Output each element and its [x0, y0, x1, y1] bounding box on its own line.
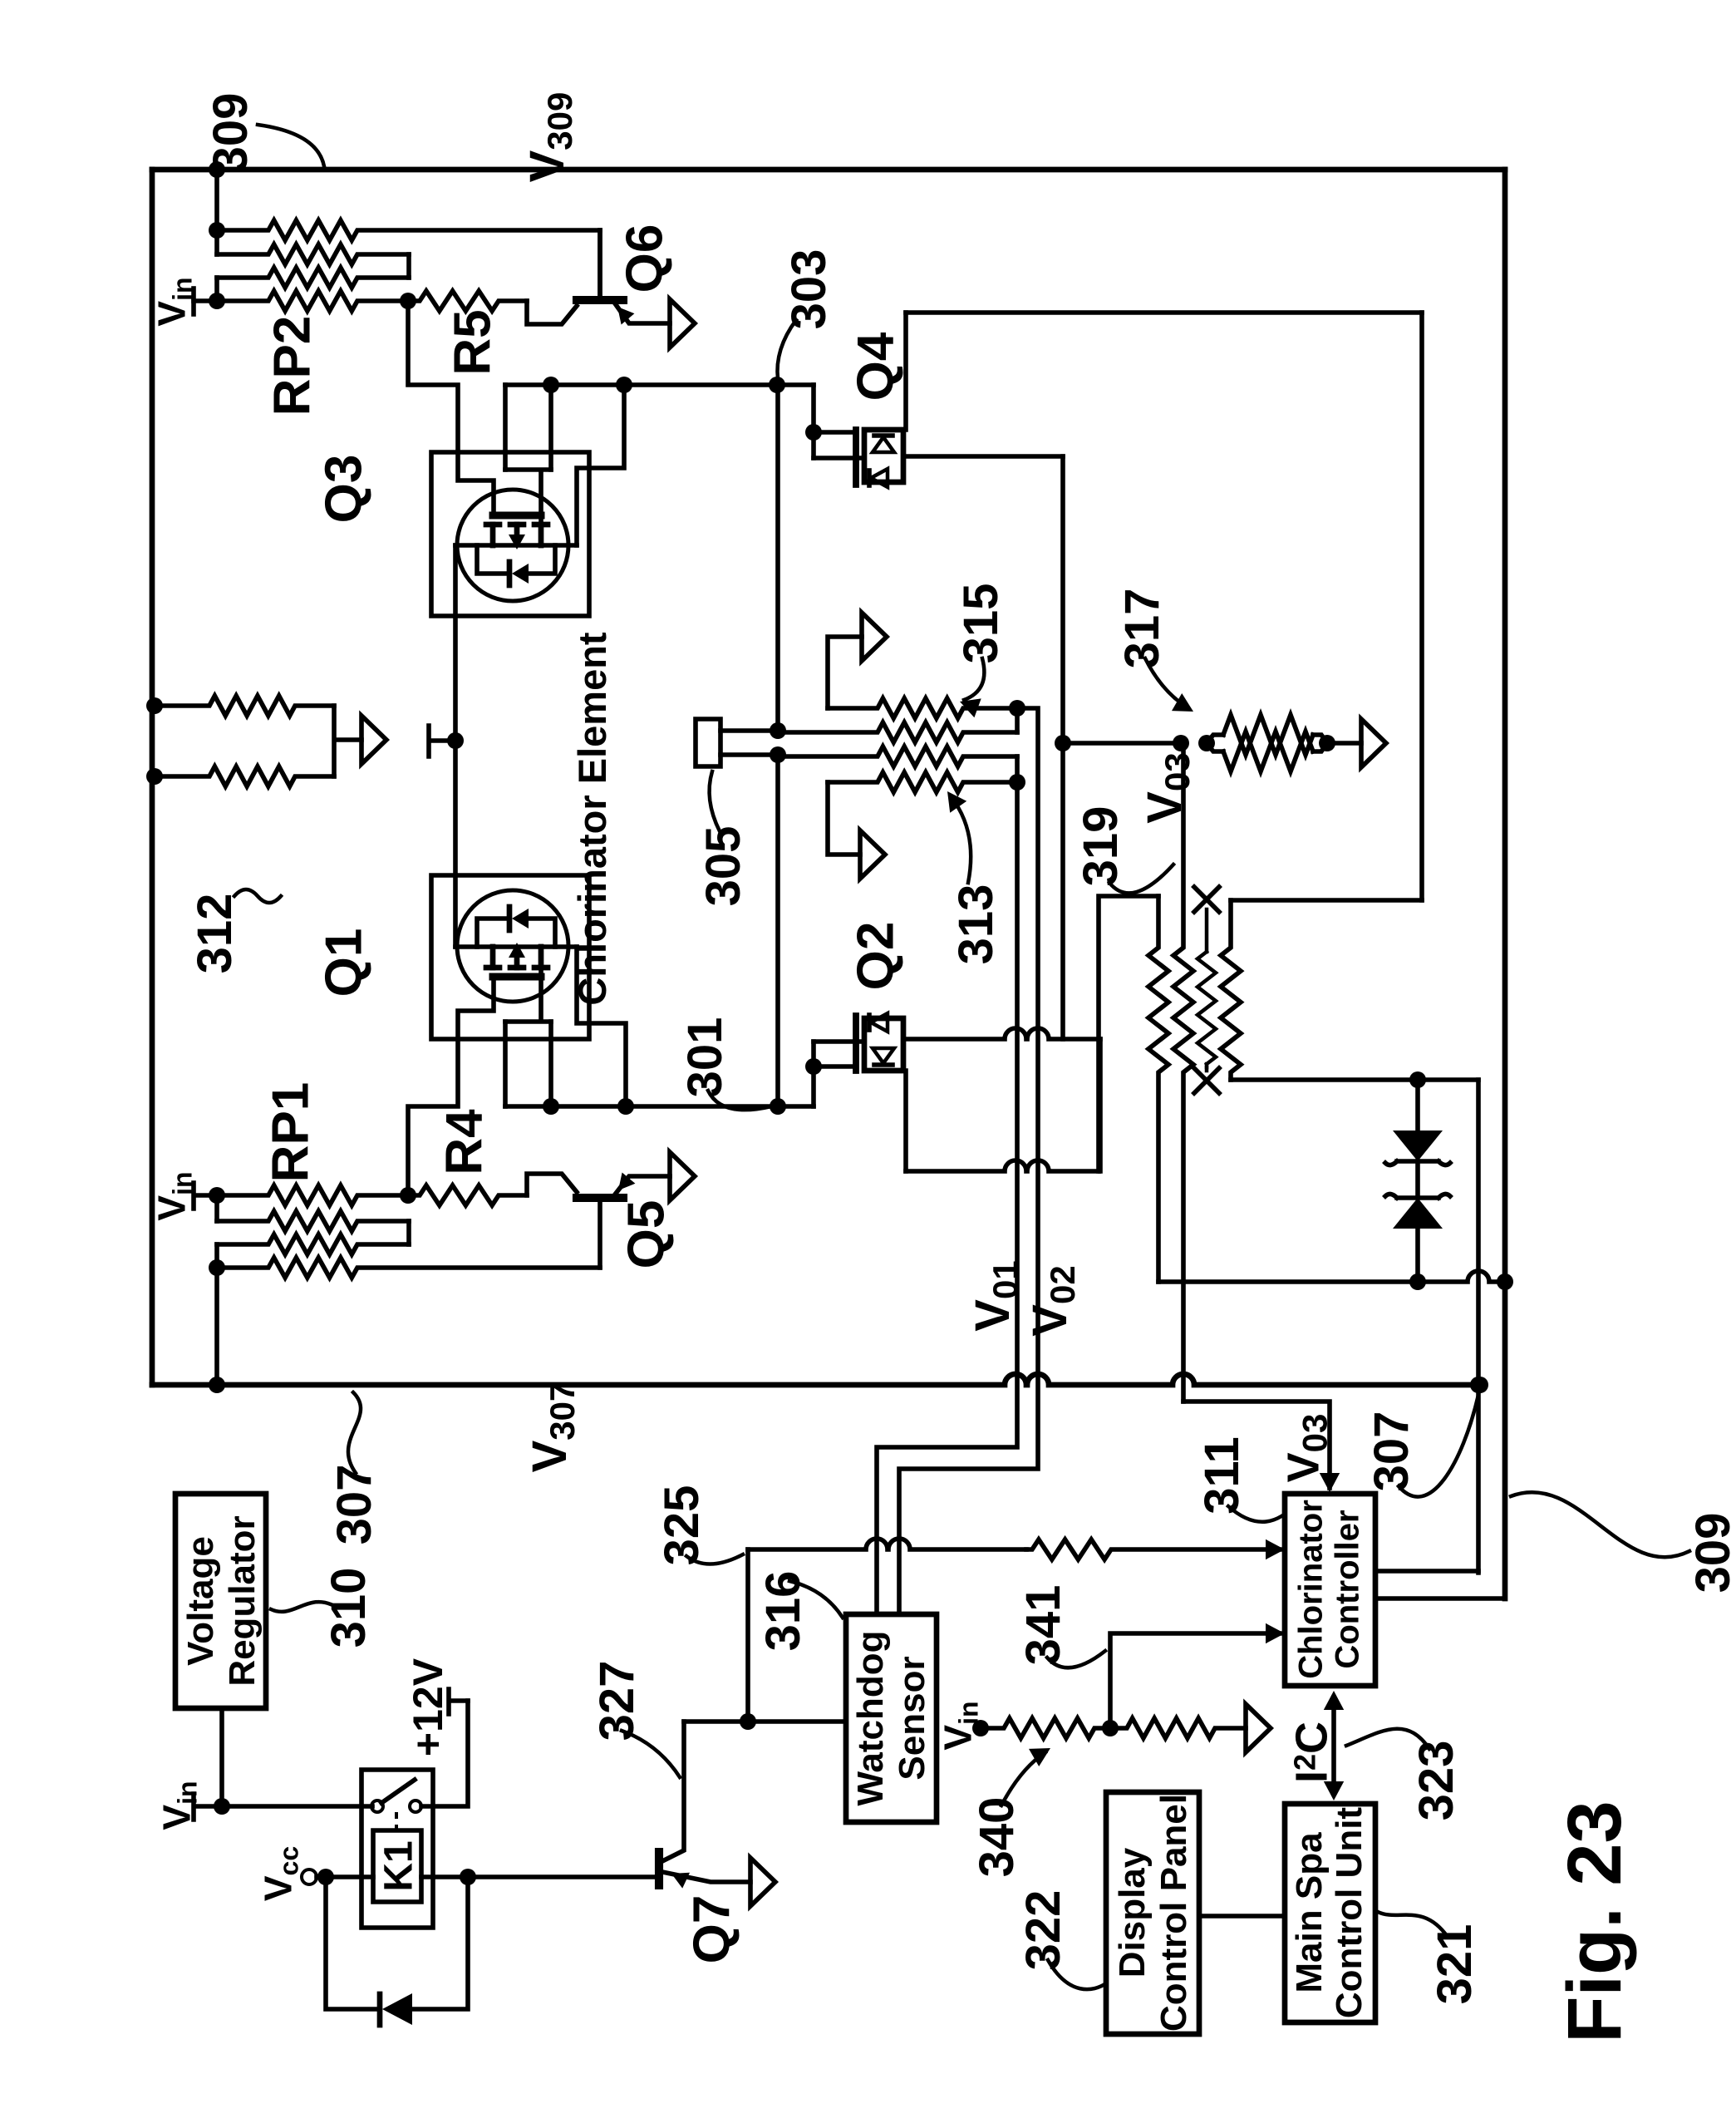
wire Q7 collector	[661, 1722, 684, 1862]
resistor RP2 row4 (Vin row)	[217, 291, 408, 311]
wire RP1 row4 -> Q5 collector	[598, 1198, 602, 1268]
svg-text:307: 307	[1365, 1411, 1419, 1492]
wire Q3 diode riser L	[477, 545, 508, 574]
resistor RP2 row3	[217, 268, 409, 288]
wire 315 gnd L	[828, 637, 862, 708]
ground 312	[361, 716, 386, 764]
svg-text:327: 327	[590, 1661, 644, 1741]
resistor RP1 row3	[217, 1234, 409, 1254]
leader 321	[1378, 1912, 1448, 1937]
diode Q2 upper bar	[867, 1015, 872, 1030]
resistor row3	[778, 746, 1017, 766]
svg-text:312: 312	[188, 894, 242, 974]
svg-text:Chlorinator: Chlorinator	[1292, 1500, 1329, 1679]
wire 1542 line	[1158, 1271, 1505, 1282]
wire Vcc to node	[317, 1874, 326, 1879]
resistor RP1 row1 (Vin row)	[217, 1185, 408, 1205]
wire Q1 lead tie	[505, 968, 551, 1022]
node 312b rail	[146, 768, 163, 785]
svg-text:Controller: Controller	[1329, 1510, 1365, 1668]
diode zener D1	[1393, 1130, 1443, 1161]
svg-text:325: 325	[655, 1485, 709, 1566]
block Voltage Regulator	[175, 1494, 266, 1708]
svg-text:313: 313	[949, 884, 1003, 965]
wire diode column	[1415, 1080, 1420, 1282]
wire Q3 channel rail	[455, 543, 577, 548]
wire Q2 source lead	[814, 1039, 864, 1044]
node row1 right	[1009, 700, 1025, 717]
svg-text:Q1: Q1	[315, 929, 372, 997]
diode Q2 lower bar	[874, 1062, 893, 1067]
svg-text:340: 340	[970, 1797, 1024, 1878]
leader 323	[1346, 1729, 1429, 1749]
resistor 312b	[152, 766, 334, 786]
wire element to 301	[775, 755, 780, 1106]
leader 315	[964, 658, 984, 700]
transistor Q6 base bar	[577, 296, 623, 304]
wire Q1 diode riser L	[477, 919, 508, 947]
diode Q4 lower triangle	[871, 469, 888, 487]
wire RP1 left join rows3-4	[214, 1244, 219, 1268]
diode Q2 lower triangle	[873, 1048, 894, 1063]
svg-text:Watchdog: Watchdog	[850, 1631, 891, 1806]
wire Q3 drain tie	[505, 470, 551, 523]
leader 303	[777, 320, 796, 379]
block Watchdog Sensor	[846, 1614, 937, 1822]
resistor 340a	[981, 1718, 1110, 1738]
wire rows1-2 right join	[1015, 708, 1020, 732]
wire element stub B	[720, 752, 778, 757]
node element B	[770, 746, 786, 763]
svg-text:305: 305	[696, 826, 750, 907]
node Vin row left	[209, 293, 225, 309]
node 1542 diode	[1409, 1273, 1426, 1290]
transistor Q2 gate bar	[853, 1016, 859, 1071]
wire RP2 left join rows3-4	[214, 278, 219, 301]
transistor Q7 base bar	[655, 1852, 663, 1885]
svg-text:Fig. 23: Fig. 23	[1552, 1800, 1637, 2042]
ground Q5 emitter	[670, 1152, 695, 1200]
resistor 319 col2 (V03)	[1173, 743, 1193, 1401]
wire rows3-4 right join	[1015, 756, 1020, 782]
svg-text:Q7: Q7	[683, 1895, 740, 1964]
node diode top	[1409, 1071, 1426, 1088]
wire RP2 row1->Q6 collector corner	[598, 230, 602, 300]
wire 301 corner to Q2	[811, 1042, 816, 1106]
diode Q2 upper triangle	[871, 1013, 888, 1032]
transistor Q1 outer box	[431, 875, 589, 1039]
diode Q1 body triangle	[512, 909, 529, 929]
leader 317	[1145, 658, 1188, 708]
ground 317	[1361, 719, 1386, 767]
ground Q7	[750, 1858, 775, 1906]
node 301 b	[617, 1098, 634, 1115]
diode Q4 lower bar	[867, 470, 872, 485]
leader 319	[1109, 864, 1173, 893]
wire 1322 link	[1099, 896, 1158, 1171]
resistor 319 col1	[1148, 896, 1168, 1282]
resistor 317 lower	[1207, 743, 1223, 751]
wire Q2 source down	[903, 1071, 908, 1171]
diode Q4 upper bar	[874, 433, 893, 438]
transistor Q1 circle	[457, 890, 568, 1002]
wire 1083 left	[1231, 898, 1422, 903]
mark X top	[1194, 887, 1219, 912]
svg-text:307: 307	[327, 1465, 381, 1545]
transistor Q2 body box	[864, 1018, 903, 1071]
transistor Q6 emitter	[615, 303, 670, 323]
wire coil right	[421, 1874, 468, 1879]
diode Q4 upper triangle	[873, 437, 894, 452]
svg-text:323: 323	[1409, 1741, 1463, 1821]
wire 312 join	[334, 706, 361, 776]
wire V01	[877, 782, 1017, 1614]
terminal Vin bottom	[972, 1720, 989, 1736]
wire RP2/R5 node to Q3 gate	[408, 301, 494, 515]
wire RP1 row4 left down to 307	[214, 1268, 219, 1385]
wire Q2 gate lead	[814, 1064, 853, 1069]
wire +12V to contact	[421, 1701, 468, 1806]
leader 301	[708, 1091, 771, 1110]
wire X line	[1205, 909, 1209, 952]
leader 325	[686, 1554, 743, 1564]
diode zener D2	[1393, 1198, 1443, 1229]
resistor 313 (row4)	[828, 772, 1017, 792]
wire right rail 309	[1502, 170, 1508, 1598]
wire Q3 right lead	[577, 385, 624, 545]
svg-text:310: 310	[322, 1568, 376, 1648]
wire Vin to relay	[222, 1804, 372, 1809]
node RP2 row1 left	[209, 222, 225, 239]
wire VR to Vin	[219, 1708, 224, 1806]
node 317 right	[1319, 735, 1335, 751]
wire X line b	[1205, 1066, 1209, 1070]
wire CC out2	[1375, 1596, 1505, 1601]
wire 301 bus	[505, 1104, 814, 1109]
ground 340	[1246, 1704, 1271, 1752]
svg-text:Control Panel: Control Panel	[1153, 1794, 1194, 2032]
wire I2C bus	[1331, 1697, 1336, 1794]
node 301 a	[543, 1098, 559, 1115]
wire 303 bus	[505, 382, 814, 387]
node 303 bus b	[616, 377, 632, 393]
terminal T cap	[429, 726, 455, 756]
wire Q7 collector top	[684, 1719, 846, 1724]
resistor 319 col3	[1197, 952, 1216, 1064]
resistor RP2 row2	[217, 244, 409, 264]
block Chlorinator Controller	[1285, 1494, 1375, 1686]
wire display-mainspa	[1199, 1914, 1285, 1919]
transistor Q7 emitter	[662, 1872, 750, 1882]
wire y894 to 317	[1063, 741, 1181, 746]
svg-text:311: 311	[1195, 1436, 1249, 1515]
wire 1711 down	[1419, 313, 1424, 900]
node y894 right	[1173, 735, 1189, 751]
svg-text:309: 309	[1686, 1513, 1736, 1594]
wire Q3 diode riser R	[529, 545, 555, 574]
svg-text:I2C: I2C	[1286, 1722, 1336, 1783]
leader 316	[789, 1581, 843, 1618]
svg-text:Q2: Q2	[847, 922, 904, 991]
resistor row2	[778, 722, 1017, 742]
svg-text:303: 303	[782, 249, 836, 330]
wire element stub A	[720, 728, 778, 733]
node VR/Vin	[214, 1798, 230, 1815]
wire 325 riser	[745, 1549, 750, 1722]
wire Q2 drain right	[903, 1028, 1100, 1039]
svg-text:Control Unit: Control Unit	[1329, 1807, 1370, 2019]
wire 1299 right	[1231, 1077, 1478, 1082]
leader 322	[1048, 1960, 1106, 1989]
svg-text:301: 301	[678, 1017, 732, 1098]
terminal Vin bottom-left	[194, 1794, 222, 1820]
svg-text:RP2: RP2	[263, 316, 321, 416]
leader 309 right	[1511, 1492, 1689, 1557]
diode flyback bar	[377, 1994, 383, 2025]
leader 327	[622, 1731, 680, 1777]
wire Q6 collector	[598, 230, 602, 300]
transistor Q3 tick stems	[493, 525, 541, 545]
svg-text:Q4: Q4	[847, 332, 904, 401]
diode Q3 body bar	[507, 562, 513, 585]
wire 1779 down	[1476, 1080, 1481, 1573]
transistor Q4 body box	[864, 430, 903, 482]
node 301 c	[770, 1098, 786, 1115]
ground Q6 emitter	[670, 299, 695, 347]
resistor R5	[408, 291, 527, 311]
svg-text:316: 316	[756, 1571, 810, 1652]
wire Q3 drain lead B	[548, 385, 553, 470]
svg-text:Q3: Q3	[315, 455, 372, 524]
leader 307 right	[1399, 1395, 1478, 1497]
node 341	[1102, 1720, 1119, 1736]
relay contact poles	[371, 1800, 383, 1812]
leader 310	[271, 1602, 331, 1612]
leader 311	[1228, 1506, 1281, 1522]
svg-text:Q6: Q6	[616, 224, 673, 293]
terminal Vin top	[191, 288, 196, 314]
node element A	[770, 722, 786, 739]
wire Q1 right lead	[577, 947, 626, 1106]
leader 307 left	[348, 1392, 361, 1473]
svg-text:341: 341	[1016, 1585, 1070, 1666]
wire coil left	[326, 1874, 373, 1879]
node Vin row / R5 junction	[400, 293, 416, 309]
wire 325 line to CC	[748, 1539, 1026, 1549]
resistor 340b	[1110, 1718, 1246, 1738]
block Display Control Panel	[1106, 1792, 1199, 2034]
wire Q3 source down to Q1 source	[453, 545, 458, 947]
diode Q1 body bar	[507, 907, 513, 930]
transistor Q3 tick caps	[486, 522, 548, 528]
wire left frame edge	[150, 170, 155, 1385]
node Q2 gate corner	[805, 1058, 822, 1075]
ground 315	[862, 613, 887, 661]
node row4 right	[1009, 774, 1025, 791]
wire Q1 lead B	[548, 1022, 553, 1106]
wire coil to Q7 base	[468, 1874, 657, 1879]
node 303 bus a	[543, 377, 559, 393]
terminal +12V	[449, 1689, 468, 1714]
node 1779 bus	[1470, 1377, 1487, 1393]
node 325/327	[740, 1713, 756, 1730]
node coil left	[317, 1869, 334, 1885]
resistor 312a	[152, 696, 334, 716]
node 1542 rail	[1497, 1273, 1513, 1290]
wire V02	[899, 708, 1038, 1614]
wire Q4 source right	[903, 454, 1063, 459]
node coil right	[460, 1869, 476, 1885]
svg-text:319: 319	[1074, 806, 1128, 887]
transistor Q5 base bar	[577, 1194, 623, 1202]
leader 341	[1047, 1651, 1105, 1667]
wire Q4 source lead	[814, 456, 864, 461]
wire 303 corner to Q4	[811, 385, 816, 458]
svg-text:RP1: RP1	[262, 1082, 319, 1183]
wire Q3 drain lead A	[503, 385, 508, 470]
wire RP1 right join rows2-3	[406, 1221, 411, 1244]
svg-text:Voltage: Voltage	[180, 1536, 221, 1666]
resistor RP1 row4	[217, 1258, 600, 1278]
svg-text:Chlorinator Element: Chlorinator Element	[570, 632, 614, 1006]
wire Q1 lead A	[503, 1022, 508, 1106]
wire RP2 left join rows1-2	[214, 230, 219, 254]
terminal Vcc	[302, 1869, 317, 1884]
transistor Q1 channel arrow	[509, 943, 525, 958]
node RP1 row4 left	[209, 1259, 225, 1276]
relay coil box	[373, 1830, 421, 1902]
node RP1 row1 left	[209, 1187, 225, 1204]
leader 312 tilde	[234, 889, 281, 903]
relay dashed link	[395, 1812, 398, 1830]
diode Q3 body triangle	[512, 564, 529, 584]
wire 341 to CC	[1110, 1633, 1280, 1728]
svg-text:R4: R4	[435, 1109, 493, 1175]
transistor Q1 tick stems	[493, 947, 541, 968]
transistor Q3 outer box	[431, 452, 589, 616]
wire Q4 drain up	[903, 313, 908, 430]
wire RP1 left join rows1-2	[214, 1195, 219, 1221]
block Main Spa Control Unit	[1285, 1804, 1375, 2022]
wire 307 bottom bus	[152, 1374, 1480, 1385]
transistor Q4 gate bar	[853, 430, 859, 485]
resistor RP2 row1	[217, 220, 600, 240]
wire R4->Q5 base jog	[527, 1174, 577, 1195]
wire 317 to gnd	[1327, 741, 1361, 746]
transistor Q5 emitter	[615, 1176, 670, 1195]
wire RP2 right join rows2-3	[406, 254, 411, 278]
terminal Vin mid	[194, 1183, 217, 1209]
svg-text:Main Spa: Main Spa	[1289, 1832, 1330, 1993]
node RP1/R4 junction	[400, 1187, 416, 1204]
wire element to 303	[775, 385, 780, 731]
transistor Q3 channel arrow	[509, 534, 525, 549]
svg-text:Display: Display	[1112, 1847, 1153, 1978]
svg-text:+12V: +12V	[405, 1658, 451, 1756]
node y894 left	[1055, 735, 1071, 751]
ground 313	[860, 830, 885, 879]
wire Q4 top line right	[906, 310, 1422, 315]
relay blade	[381, 1780, 415, 1803]
svg-text:309: 309	[204, 93, 258, 174]
diode flyback triangle	[382, 1993, 412, 2025]
leader 313	[951, 796, 971, 883]
transistor Q3 circle	[457, 490, 568, 601]
wire R5->Q6 base jog	[527, 301, 577, 324]
resistor RP1 row2	[217, 1211, 409, 1231]
wire 1279 drain column	[1060, 456, 1065, 1039]
wire Q2 1409 line	[906, 1160, 1099, 1171]
svg-text:322: 322	[1016, 1890, 1070, 1971]
svg-text:Q5: Q5	[617, 1200, 675, 1269]
relay K1 outer box	[361, 1770, 433, 1928]
svg-text:K1: K1	[376, 1840, 420, 1891]
node 312a rail	[146, 697, 163, 714]
resistor 319 col4	[1221, 900, 1241, 1080]
transistor Q1 gate bar	[493, 973, 541, 981]
wire RP1 gate riser	[408, 976, 494, 1195]
node rail/RP2	[209, 161, 225, 178]
transistor Q1 tick caps	[486, 965, 548, 971]
wire Q1 channel rail	[455, 944, 577, 949]
svg-text:315: 315	[954, 584, 1008, 664]
wire Q4 gate lead	[814, 430, 853, 435]
wire flyback right	[412, 1877, 468, 2009]
wire 313 gnd L	[828, 782, 860, 855]
resistor R4	[408, 1185, 527, 1205]
svg-text:317: 317	[1115, 589, 1169, 669]
chlorinator element body	[696, 719, 720, 766]
node 303 bus c	[769, 377, 785, 393]
leader 340	[1001, 1752, 1045, 1805]
svg-text:Regulator: Regulator	[222, 1515, 263, 1686]
wire 1324 link	[1098, 1039, 1103, 1171]
node 317 left	[1198, 735, 1215, 751]
wire V309 top rail	[152, 167, 1505, 173]
wire Q1 diode riser R	[529, 919, 555, 947]
svg-text:Sensor: Sensor	[892, 1656, 932, 1780]
leader 305	[710, 771, 720, 831]
resistor 315 (row1)	[828, 698, 1017, 718]
node 307-bus left	[209, 1377, 225, 1393]
wire RP2 vert rail-row1	[214, 170, 219, 230]
leader 309	[258, 125, 324, 166]
resistor 317 upper	[1207, 735, 1223, 743]
wire flyback left	[326, 1877, 378, 2009]
node 307-bus right (1781)	[1472, 1377, 1488, 1393]
mark X bottom	[1205, 1064, 1209, 1071]
node Q4 gate corner	[805, 424, 822, 441]
svg-text:321: 321	[1428, 1924, 1482, 2005]
wire V03 to CC	[1183, 1401, 1330, 1488]
wire CC out1	[1375, 1569, 1478, 1574]
node gate tie	[447, 732, 464, 749]
svg-text:R5: R5	[444, 309, 501, 375]
transistor Q3 gate bar	[493, 512, 541, 520]
